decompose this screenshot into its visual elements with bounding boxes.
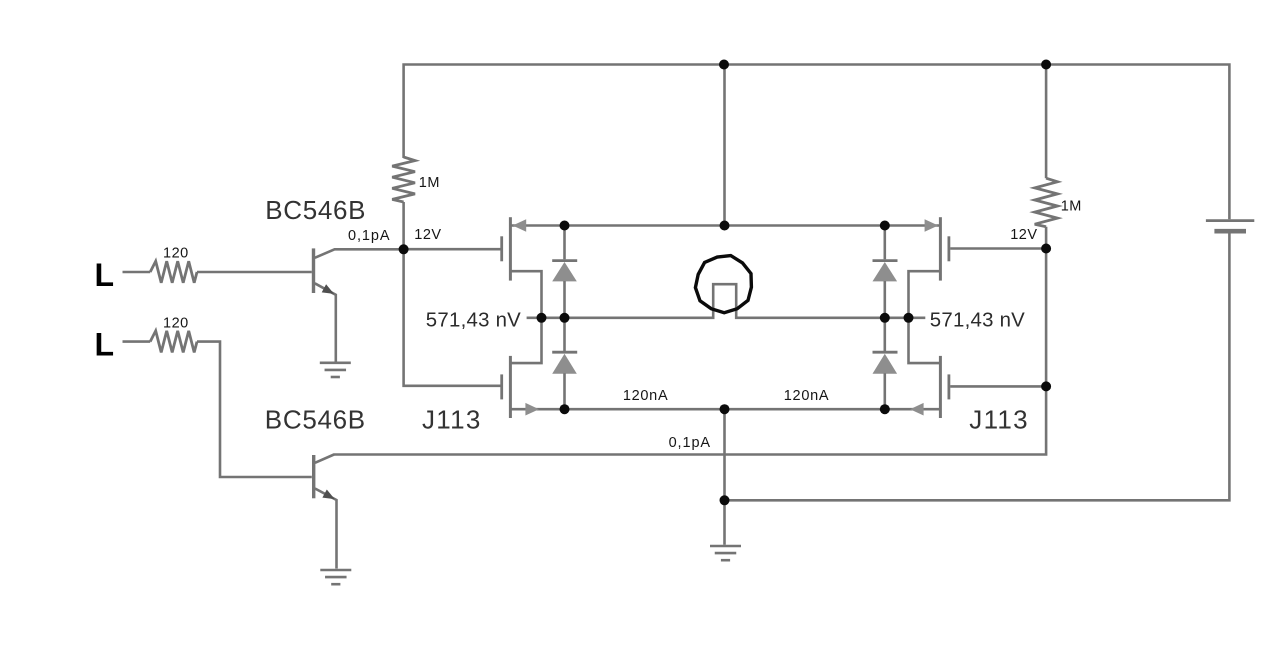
- svg-text:571,43 nV: 571,43 nV: [426, 309, 521, 331]
- svg-text:0,1pA: 0,1pA: [348, 228, 390, 244]
- svg-text:571,43 nV: 571,43 nV: [930, 309, 1025, 331]
- svg-text:120: 120: [163, 245, 189, 261]
- svg-text:120nA: 120nA: [623, 388, 668, 404]
- svg-text:L: L: [95, 257, 115, 293]
- svg-text:12V: 12V: [1010, 227, 1037, 243]
- svg-text:J113: J113: [422, 405, 482, 435]
- svg-text:120: 120: [163, 315, 189, 331]
- svg-text:1M: 1M: [1061, 198, 1082, 214]
- svg-text:12V: 12V: [414, 227, 441, 243]
- svg-text:1M: 1M: [419, 175, 440, 191]
- svg-text:120nA: 120nA: [784, 388, 829, 404]
- svg-text:0,1pA: 0,1pA: [669, 435, 711, 451]
- svg-text:BC546B: BC546B: [265, 195, 366, 225]
- svg-text:J113: J113: [969, 405, 1029, 435]
- svg-text:L: L: [95, 326, 115, 362]
- svg-text:BC546B: BC546B: [265, 405, 366, 435]
